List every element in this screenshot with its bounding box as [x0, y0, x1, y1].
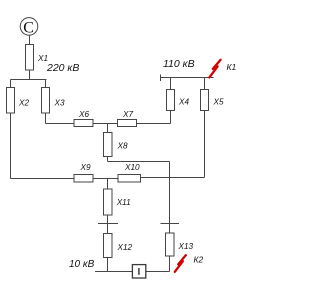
svg-text:10 кВ: 10 кВ: [69, 259, 95, 270]
svg-text:X11: X11: [116, 198, 131, 207]
svg-text:X5: X5: [213, 98, 224, 107]
svg-text:X4: X4: [178, 98, 189, 107]
svg-text:К1: К1: [227, 62, 237, 72]
svg-text:К2: К2: [194, 255, 204, 265]
svg-text:X10: X10: [124, 163, 140, 172]
svg-text:X12: X12: [117, 243, 133, 252]
svg-text:X2: X2: [18, 99, 29, 108]
svg-text:220 кВ: 220 кВ: [46, 62, 79, 74]
svg-text:X13: X13: [178, 242, 194, 251]
svg-text:X8: X8: [117, 141, 128, 150]
svg-text:X7: X7: [122, 110, 133, 119]
svg-text:X6: X6: [78, 110, 89, 119]
svg-text:X3: X3: [54, 99, 65, 108]
svg-text:X9: X9: [80, 163, 91, 172]
svg-text:C: C: [23, 20, 34, 37]
svg-text:110 кВ: 110 кВ: [163, 58, 195, 70]
